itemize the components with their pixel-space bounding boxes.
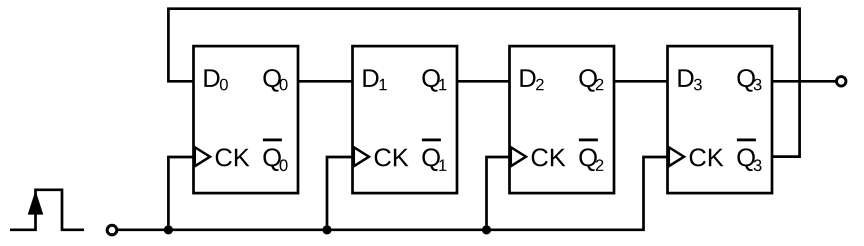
pin label CK U3 [532,148,566,166]
wire Q1 to D2 [457,80,510,83]
pin label Q0bar overline [263,139,282,142]
pin label Q1bar [422,148,446,171]
clock input terminal [107,225,117,235]
wire Q0 to D1 [298,80,353,83]
pin label Q3 [737,69,761,92]
pin label Q3bar overline [737,139,756,142]
pin label Q2 [579,69,603,92]
pin label D1 [363,69,386,90]
flip-flop U4 body [668,46,773,193]
junction dot at CK riser 1 [164,225,173,234]
wire Q2 to D3 [614,80,668,83]
clock edge arrow [28,190,44,214]
pin label D0 [204,69,227,90]
wire clock riser to CK of U1 [168,157,193,230]
wire clock bus [118,157,668,230]
pin label CK U4 [690,148,724,166]
flip-flop U2 body [353,46,458,193]
pin label Q3bar [737,148,761,171]
pin label Q0 [263,69,287,92]
flip-flop U3 body [510,46,615,193]
junction dot at CK riser 2 [322,225,331,234]
pin label D2 [520,69,543,90]
wire Q3 to output terminal [772,80,836,83]
pin label Q2bar [579,148,603,171]
clock pulse waveform [10,190,84,230]
pin label Q0bar [263,148,287,171]
wire feedback from Q3bar to D0 (top loop) [168,9,799,157]
pin label Q1bar overline [422,139,441,142]
clock edge triangle U2 [354,147,369,166]
wire clock riser to CK of U3 [487,157,510,230]
clock edge triangle U1 [195,147,210,166]
flip-flop U1 body [194,46,299,193]
output terminal [836,77,846,87]
pin label Q2bar overline [579,139,598,142]
pin label D3 [678,69,701,90]
junction dot at CK riser 3 [482,225,491,234]
clock edge triangle U4 [669,147,684,166]
wire clock riser to CK of U2 [327,157,353,230]
clock edge triangle U3 [511,147,526,166]
pin label Q1 [422,69,446,92]
pin label CK U2 [375,148,409,166]
pin label CK U1 [216,148,250,166]
